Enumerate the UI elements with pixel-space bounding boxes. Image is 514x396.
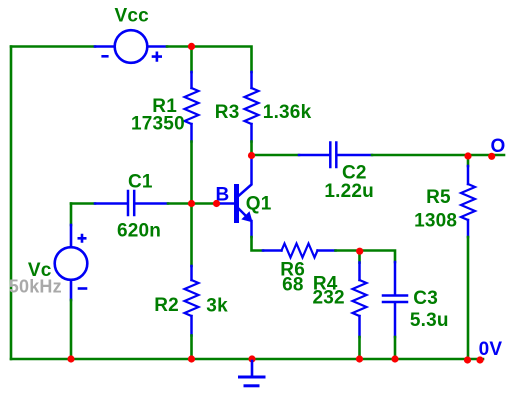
wire R4 top stub	[358, 251, 361, 263]
wire top-left horizontal to Vcc	[11, 45, 95, 48]
svg-text:620n: 620n	[117, 221, 161, 242]
svg-text:0V: 0V	[479, 339, 503, 360]
svg-text:C1: C1	[128, 172, 153, 193]
wire base junction to B node	[192, 202, 220, 205]
node B marker dot	[213, 200, 220, 207]
wire C3 bottom to rail	[394, 337, 397, 359]
capacitor C3	[383, 262, 407, 337]
wire C1 branch horizontal	[71, 202, 95, 205]
svg-text:1308: 1308	[414, 210, 457, 231]
resistor R1	[185, 72, 199, 142]
capacitor C2	[299, 143, 372, 168]
wire R4 bottom to rail	[358, 337, 361, 359]
ground	[240, 361, 265, 386]
wire collector junction to C2	[252, 154, 300, 157]
svg-text:5.3u: 5.3u	[410, 310, 449, 331]
svg-text:Vcc: Vcc	[115, 6, 150, 27]
node 0V marker dot	[476, 356, 483, 363]
node rail dot C3	[391, 355, 398, 362]
resistor R2	[185, 266, 199, 336]
wire R6 to R4 junction and C3 corner	[336, 251, 396, 263]
node junction dot R4 top	[356, 248, 363, 255]
svg-text:Q1: Q1	[246, 194, 272, 215]
node junction dot top	[188, 43, 195, 50]
wire emitter down and corner to R6	[252, 237, 264, 251]
resistor R6	[263, 244, 336, 258]
wire bottom rail	[11, 358, 483, 361]
voltage source Vc	[55, 225, 88, 300]
node rail dot R4	[356, 355, 363, 362]
Vc minus sign	[79, 287, 86, 290]
Vc plus sign	[79, 235, 85, 241]
wire R5 bottom to rail	[467, 237, 470, 359]
svg-text:1.36k: 1.36k	[263, 102, 312, 123]
node rail dot ground	[248, 355, 255, 362]
svg-text:R3: R3	[215, 102, 240, 123]
svg-text:R2: R2	[154, 295, 179, 316]
wire C2 to output O	[372, 154, 504, 157]
resistor R5	[461, 166, 475, 237]
svg-text:68: 68	[282, 274, 304, 295]
wire top junction down to R1	[190, 47, 193, 73]
node junction dot collector	[248, 152, 255, 159]
node rail dot R5	[464, 356, 471, 363]
node junction dot base column	[188, 200, 195, 207]
wire left rail vertical	[10, 47, 13, 360]
wire R1 to base junction	[190, 142, 193, 267]
wire Vc top stub	[70, 204, 73, 226]
node junction dot R5 top	[464, 152, 471, 159]
wire R3 bottom to collector junction	[250, 142, 253, 157]
capacitor C1	[95, 191, 168, 215]
node O marker dot	[488, 153, 495, 160]
wire R2 bottom to rail	[190, 336, 193, 360]
wire Vcc to top junction and R3 column	[167, 47, 252, 73]
svg-text:C3: C3	[413, 288, 438, 309]
Vcc plus sign	[153, 53, 161, 61]
svg-text:50kHz: 50kHz	[9, 276, 62, 296]
resistor R4	[353, 263, 367, 338]
wire Vc bottom to rail	[70, 300, 73, 359]
svg-text:17350: 17350	[131, 114, 185, 135]
wire C1 to base junction	[168, 202, 192, 205]
resistor R3	[245, 72, 259, 142]
svg-text:R5: R5	[426, 187, 451, 208]
wire R5 top stub	[467, 155, 470, 166]
svg-text:3k: 3k	[206, 296, 228, 317]
svg-text:232: 232	[313, 288, 345, 309]
voltage source Vcc	[95, 30, 167, 63]
svg-text:1.22u: 1.22u	[324, 181, 374, 202]
node rail dot R2	[188, 355, 195, 362]
transistor Q1	[219, 156, 252, 237]
node rail dot Vc	[67, 355, 74, 362]
Vcc minus sign	[103, 55, 108, 58]
